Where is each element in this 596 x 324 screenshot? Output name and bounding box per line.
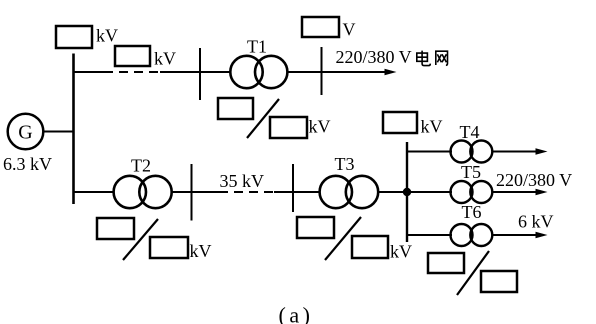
- svg-text:V: V: [343, 20, 356, 40]
- svg-text:kV: kV: [154, 49, 176, 69]
- bus B2 (secondary distribution bus): [406, 142, 408, 242]
- box value V2: [115, 46, 150, 66]
- wire top feeder to T1: [160, 71, 230, 73]
- box value V9 (T3 ratio denominator): [352, 236, 388, 258]
- svg-text:(a): (a): [279, 303, 314, 324]
- transformer T5: [451, 181, 493, 203]
- svg-text:T5: T5: [461, 162, 481, 182]
- box value V12 (T6 ratio denominator): [481, 271, 517, 292]
- label 220/380 V电网: [336, 47, 448, 67]
- wire to T3: [274, 191, 320, 193]
- svg-text:35 kV: 35 kV: [220, 171, 265, 191]
- box value V10: [383, 112, 417, 133]
- box value V4 (T1 ratio numerator): [218, 98, 253, 119]
- svg-text:220/380 V: 220/380 V: [496, 170, 572, 190]
- wire T6 output with arrow: [492, 232, 547, 238]
- svg-text:T2: T2: [131, 156, 151, 176]
- box value V1: [56, 26, 92, 48]
- wire top feeder solid from bus: [74, 71, 105, 73]
- svg-text:kV: kV: [421, 117, 443, 137]
- box value V7 (T2 ratio denominator): [150, 237, 188, 258]
- svg-text:T6: T6: [462, 202, 482, 222]
- transformer T6: [451, 224, 493, 246]
- wire middle feeder from bus to T2: [74, 191, 115, 193]
- svg-text:T3: T3: [335, 154, 355, 174]
- wire T3 to node: [378, 191, 407, 193]
- svg-text:kV: kV: [190, 241, 212, 261]
- bus B1 (generator bus): [72, 54, 75, 205]
- box value V11 (T6 ratio numerator): [428, 253, 464, 273]
- svg-text:kV: kV: [96, 26, 118, 46]
- transformer T3: [320, 176, 379, 208]
- tick bus mark right of T2: [191, 164, 193, 221]
- generator G1: [8, 114, 44, 150]
- tick bus mark right of T1: [321, 47, 323, 95]
- svg-text:T1: T1: [247, 37, 267, 57]
- svg-text:kV: kV: [309, 117, 331, 137]
- wire generator lead: [44, 131, 74, 133]
- svg-text:kV: kV: [390, 242, 412, 262]
- box value V3: [302, 17, 339, 37]
- slash T3 ratio: [325, 217, 361, 260]
- tick bus mark left of T3: [292, 164, 294, 212]
- svg-text:T4: T4: [460, 122, 480, 142]
- wire T5 branch: [407, 191, 452, 193]
- box value V8 (T3 ratio numerator): [297, 217, 334, 238]
- wire T4 branch: [407, 151, 452, 153]
- box value V6 (T2 ratio numerator): [97, 218, 134, 239]
- transformer T4: [451, 141, 493, 163]
- svg-text:220/380 V: 220/380 V: [336, 47, 412, 67]
- box value V5 (T1 ratio denominator): [270, 117, 307, 138]
- wire T5 output with arrow: [492, 189, 547, 195]
- slash T2 ratio: [123, 219, 158, 260]
- tick bus mark left of T1: [199, 48, 201, 100]
- slash T1 ratio: [247, 99, 279, 138]
- slash T6 ratio: [457, 251, 489, 295]
- transformer T1: [230, 56, 287, 88]
- wire T4 output with arrow: [492, 148, 547, 154]
- wire T6 branch: [407, 234, 452, 236]
- svg-text:6 kV: 6 kV: [518, 212, 554, 232]
- svg-text:G: G: [18, 122, 32, 144]
- wire T1 output with arrow: [288, 69, 397, 76]
- transformer T2: [114, 176, 172, 208]
- node J1 (junction dot): [403, 188, 411, 196]
- wire top feeder dashed: [104, 71, 160, 73]
- wire T2 to tick: [172, 191, 220, 193]
- svg-text:6.3 kV: 6.3 kV: [3, 154, 52, 174]
- wire 35 kV dashed line: [219, 191, 274, 193]
